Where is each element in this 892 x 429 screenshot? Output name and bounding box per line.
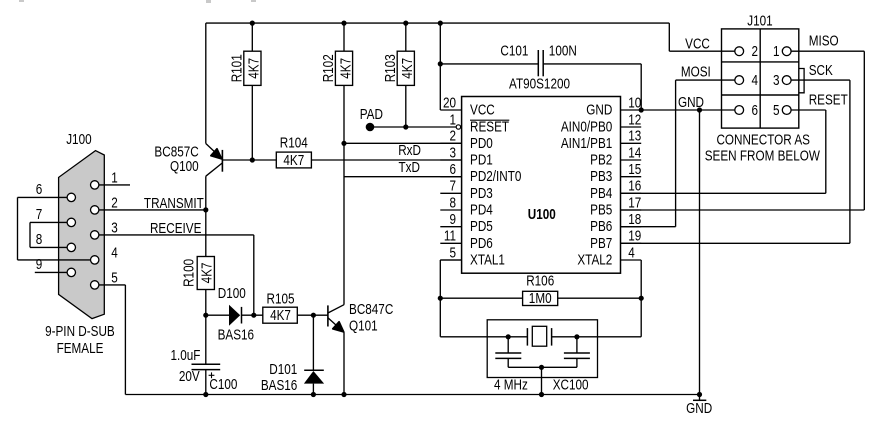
- junction C101 / GND pin 10: [639, 107, 644, 112]
- label R106: [526, 272, 554, 288]
- pin number 6 (J101): [752, 102, 759, 118]
- pin number 8: [36, 231, 43, 247]
- label J101: [747, 12, 772, 28]
- wire R102 bottom lead / Q101 collector line: [343, 85, 345, 304]
- pin number 3: [111, 219, 118, 235]
- wire crystal bus to ground rail: [541, 367, 543, 394]
- U100 pin label PB4: [590, 185, 612, 201]
- J101 pin 4: [735, 76, 744, 85]
- svg-text:1: 1: [773, 43, 780, 59]
- U100 pin label GND: [586, 101, 612, 117]
- svg-text:PD4: PD4: [470, 201, 493, 217]
- svg-text:PB5: PB5: [590, 201, 612, 217]
- svg-text:R106: R106: [526, 272, 554, 288]
- svg-text:4K7: 4K7: [198, 262, 214, 283]
- pin number 9 (U100 PD5): [449, 211, 456, 227]
- svg-text:18: 18: [628, 211, 641, 227]
- svg-text:PD3: PD3: [470, 185, 493, 201]
- wire R101 top lead: [251, 23, 253, 51]
- label Q101: [349, 317, 378, 333]
- J101 pin 1: [782, 47, 791, 56]
- label TRANSMIT: [144, 195, 204, 211]
- U100 pin label RESET: [470, 118, 509, 134]
- label J100: [66, 131, 91, 147]
- wire R100 bottom lead: [205, 290, 207, 316]
- svg-text:VCC: VCC: [685, 36, 710, 52]
- pin number 6 (U100 PD2/INT0): [449, 161, 456, 177]
- U100 left pin 11 stub: [440, 242, 461, 244]
- U100 pin label VCC: [470, 101, 495, 117]
- pin number 8 (U100 PD4): [449, 194, 456, 210]
- svg-text:BAS16: BAS16: [261, 377, 297, 393]
- value 4K7 (R105): [270, 307, 291, 323]
- J100 pin 3: [91, 231, 99, 239]
- junction RECEIVE / D100 / R105: [251, 313, 256, 318]
- svg-text:4: 4: [752, 72, 759, 88]
- J100 pin 1: [91, 181, 99, 189]
- label BC847C: [349, 301, 393, 317]
- capacitor C100 top lead: [205, 315, 207, 364]
- label Q100: [170, 158, 199, 174]
- wire D100 cathode to R105: [242, 314, 263, 316]
- wire R103 bottom lead: [405, 85, 407, 127]
- pin number 5: [111, 269, 118, 285]
- connector J100 body (9-pin D-SUB): [59, 151, 105, 319]
- junction PD0 / R102 / Q101 collector: [341, 141, 346, 146]
- svg-text:GND: GND: [586, 101, 612, 117]
- svg-text:XTAL1: XTAL1: [470, 251, 505, 267]
- svg-text:RECEIVE: RECEIVE: [150, 220, 202, 236]
- wire TRANSMIT (J100 pin 2 to Q100 collector): [95, 209, 206, 211]
- wire R102 top lead: [343, 23, 345, 51]
- wire MOSI (J101 pin 4 to U100 PB6): [621, 80, 735, 227]
- svg-text:MOSI: MOSI: [681, 63, 711, 79]
- wire TxD line (Q101 collector line to U100 PD2): [344, 176, 462, 178]
- svg-text:4K7: 4K7: [337, 58, 353, 79]
- wire GND net (U100 pin 10 to J101 pin 6): [641, 109, 735, 111]
- wire R101 bottom lead: [251, 85, 253, 160]
- svg-text:8: 8: [36, 231, 43, 247]
- U100 right pin 19 stub: [621, 242, 642, 244]
- pin number 12 (U100 AIN0/PB0): [628, 111, 641, 127]
- pin number 15 (U100 PB3): [628, 161, 641, 177]
- svg-text:7: 7: [36, 206, 43, 222]
- pin number 1 (U100 RESET): [449, 111, 456, 127]
- J100 pin 2: [91, 206, 99, 214]
- junction D101 on ground rail: [311, 392, 316, 397]
- junction VCC branch to U100: [438, 21, 443, 26]
- transistor Q100: [206, 144, 223, 177]
- junction R100 / D100 / C100: [203, 313, 208, 318]
- wire Q100 emitter to VCC rail: [205, 23, 207, 143]
- wire XTAL1 (U100 pin 5 to crystal): [440, 260, 527, 337]
- svg-text:J101: J101: [747, 12, 772, 28]
- label CONNECTOR AS: [716, 131, 810, 147]
- U100 right pin 4 stub: [621, 259, 642, 261]
- junction R106 right: [639, 296, 644, 301]
- svg-text:4K7: 4K7: [283, 152, 304, 168]
- U100 right pin 14 stub: [621, 159, 642, 161]
- U100 pin label PB7: [590, 235, 612, 251]
- svg-text:PB4: PB4: [590, 185, 612, 201]
- U100 left pin 7 stub: [440, 192, 461, 194]
- svg-text:TRANSMIT: TRANSMIT: [144, 195, 204, 211]
- wire Q100 base to R104: [222, 159, 276, 161]
- J101 pin 3: [782, 76, 791, 85]
- U100 right pin 17 stub: [621, 209, 642, 211]
- label XC100: [553, 376, 589, 392]
- U100 right pin 12 stub: [621, 126, 642, 128]
- svg-text:FEMALE: FEMALE: [57, 340, 104, 356]
- svg-text:J100: J100: [66, 131, 91, 147]
- wire GND vertical drop: [699, 110, 701, 395]
- wire J100 pin 6 to pin 4 loopback: [18, 197, 95, 260]
- label 20V: [179, 368, 200, 384]
- svg-text:13: 13: [628, 128, 641, 144]
- wire PD0 (R102/Q101 collector node to U100 PD0): [344, 142, 462, 144]
- pin number 14 (U100 PB2): [628, 144, 641, 160]
- junction crystal right / C right: [574, 334, 579, 339]
- RESET overline: [470, 119, 509, 121]
- J101 pin 6: [735, 106, 744, 115]
- svg-text:6: 6: [449, 161, 456, 177]
- label TxD: [399, 159, 420, 175]
- svg-text:PD5: PD5: [470, 218, 493, 234]
- svg-text:4 MHz: 4 MHz: [494, 376, 528, 392]
- ic U100 body: [462, 97, 621, 274]
- label BAS16 (D101): [261, 377, 297, 393]
- svg-text:PB6: PB6: [590, 218, 612, 234]
- ground symbol: [693, 395, 706, 401]
- label U100: [528, 206, 556, 222]
- cropped text descenders at top edge: [19, 0, 256, 3]
- label RxD: [398, 142, 421, 158]
- label R104: [280, 134, 308, 150]
- svg-text:100N: 100N: [549, 42, 577, 58]
- wire Q101 emitter to ground rail: [343, 332, 345, 394]
- wire R103 top lead: [405, 23, 407, 51]
- resistor R103: [397, 51, 414, 85]
- pin number 3 (U100 PD1): [449, 144, 456, 160]
- svg-text:GND: GND: [686, 400, 712, 416]
- junction C100 on ground rail: [203, 392, 208, 397]
- svg-text:4: 4: [628, 244, 635, 260]
- svg-text:XTAL2: XTAL2: [577, 251, 612, 267]
- junction R103 bottom on RESET line: [403, 124, 408, 129]
- wire VCC branch (rail to U100 pin 20): [440, 23, 461, 110]
- wire D100 anode lead: [206, 314, 229, 316]
- U100 right pin 10 stub: [621, 109, 642, 111]
- label MISO (J101): [809, 32, 839, 48]
- connector J101 body: [722, 29, 805, 128]
- resistor R102: [335, 51, 352, 85]
- pin number 3 (J101): [773, 72, 780, 88]
- label D100: [218, 285, 246, 301]
- svg-text:12: 12: [628, 111, 641, 127]
- svg-text:AT90S1200: AT90S1200: [509, 75, 570, 91]
- junction C101 on VCC branch: [438, 61, 443, 66]
- svg-text:6: 6: [752, 102, 759, 118]
- svg-text:PD6: PD6: [470, 235, 493, 251]
- label SCK (J101): [809, 62, 833, 78]
- pin number 7 (U100 PD3): [449, 178, 456, 194]
- svg-text:20V: 20V: [179, 368, 200, 384]
- svg-text:2: 2: [449, 128, 456, 144]
- diode D100: [229, 305, 242, 326]
- junction R102 top: [341, 21, 346, 26]
- label R101: [228, 54, 244, 82]
- wire RxD line (R104 to U100 PD1): [311, 159, 461, 161]
- J100 pin 7: [67, 218, 75, 226]
- label SEEN FROM BELOW: [705, 147, 821, 163]
- svg-text:PD0: PD0: [470, 135, 493, 151]
- crystal module XC100 outline: [487, 320, 597, 378]
- svg-text:3: 3: [449, 144, 456, 160]
- transistor Q101: [328, 305, 344, 333]
- J100 pin 6: [67, 193, 75, 201]
- wire R106 right lead: [558, 297, 642, 299]
- resistor R101: [244, 51, 261, 85]
- svg-text:20: 20: [443, 94, 456, 110]
- label D101: [269, 361, 297, 377]
- junction crystal ground bus: [539, 365, 544, 370]
- U100 pin label PB5: [590, 201, 612, 217]
- U100 left pin 8 stub: [440, 209, 461, 211]
- label R105: [266, 290, 294, 306]
- pin number 13 (U100 AIN1/PB1): [628, 128, 641, 144]
- label R102: [320, 54, 336, 82]
- svg-text:U100: U100: [528, 206, 556, 222]
- load capacitor right: [564, 337, 590, 368]
- value 4K7 (R104): [283, 152, 304, 168]
- U100 left pin 6 stub: [440, 176, 461, 178]
- J101 pin 5: [782, 106, 791, 115]
- svg-text:2: 2: [111, 194, 118, 210]
- label 4 MHz: [494, 376, 528, 392]
- U100 pin label PD3: [470, 185, 493, 201]
- svg-text:AIN1/PB1: AIN1/PB1: [561, 135, 612, 151]
- resistor R105: [263, 307, 298, 323]
- resistor R100: [197, 257, 214, 290]
- svg-text:5: 5: [773, 102, 780, 118]
- svg-text:R104: R104: [280, 134, 308, 150]
- label GND (J101): [678, 94, 704, 110]
- label C100: [209, 376, 237, 392]
- U100 pin label PD5: [470, 218, 493, 234]
- svg-text:6: 6: [36, 181, 43, 197]
- wire XTAL2 (U100 pin 4 to crystal): [552, 260, 642, 337]
- label AT90S1200: [509, 75, 570, 91]
- pin number 11 (U100 PD6): [444, 228, 456, 244]
- wire crystal ground bus: [508, 366, 577, 368]
- wire ground rail: [125, 394, 699, 396]
- U100 pin label AIN1/PB1: [561, 135, 612, 151]
- svg-text:MISO: MISO: [809, 32, 839, 48]
- U100 pin label PB3: [590, 168, 612, 184]
- svg-text:9: 9: [36, 256, 43, 272]
- svg-text:1: 1: [449, 111, 456, 127]
- pin number 4: [111, 244, 118, 260]
- U100 right pin 13 stub: [621, 142, 642, 144]
- pin number 6: [36, 181, 43, 197]
- pin number 10 (U100 GND): [628, 94, 641, 110]
- svg-text:R103: R103: [382, 54, 398, 82]
- value 4K7 (R102): [337, 58, 353, 79]
- svg-text:1: 1: [111, 169, 118, 185]
- svg-text:PB2: PB2: [590, 151, 612, 167]
- wire VCC top rail: [206, 22, 670, 24]
- U100 pin label PD4: [470, 201, 493, 217]
- label 1.0uF: [170, 347, 200, 363]
- svg-text:5: 5: [449, 244, 456, 260]
- svg-text:5: 5: [111, 269, 118, 285]
- svg-text:C101: C101: [500, 42, 528, 58]
- wire D101 anode to ground rail: [312, 384, 314, 395]
- pin number 4 (U100 XTAL2): [628, 244, 635, 260]
- svg-text:Q100: Q100: [170, 158, 199, 174]
- U100 left pin 9 stub: [440, 226, 461, 228]
- wire R106 left lead: [440, 297, 522, 299]
- svg-text:4K7: 4K7: [399, 58, 415, 79]
- junction R101 top: [250, 21, 255, 26]
- capacitor C100: [192, 364, 221, 378]
- svg-text:R105: R105: [266, 290, 294, 306]
- pin number 5 (U100 XTAL1): [449, 244, 456, 260]
- pin number 5 (J101): [773, 102, 780, 118]
- junction R106 left: [438, 296, 443, 301]
- wire VCC rail drop to J101 pin 2: [669, 23, 734, 51]
- label BAS16 (D100): [218, 326, 254, 342]
- svg-text:C100: C100: [209, 376, 237, 392]
- label R100: [180, 259, 196, 287]
- U100 left pin 2 stub: [440, 142, 461, 144]
- svg-text:D100: D100: [218, 285, 246, 301]
- U100 right pin 15 stub: [621, 176, 642, 178]
- svg-text:PD2/INT0: PD2/INT0: [470, 168, 521, 184]
- svg-text:BC847C: BC847C: [349, 301, 393, 317]
- svg-text:4: 4: [111, 244, 118, 260]
- wire Q101 base node down to D101: [312, 315, 314, 370]
- svg-text:1M0: 1M0: [529, 290, 552, 306]
- label MOSI (J101): [681, 63, 711, 79]
- svg-text:7: 7: [449, 178, 456, 194]
- svg-text:XC100: XC100: [553, 376, 589, 392]
- label FEMALE: [57, 340, 104, 356]
- svg-text:AIN0/PB0: AIN0/PB0: [561, 118, 612, 134]
- svg-text:2: 2: [752, 43, 759, 59]
- wire RECEIVE (J100 pin 3 to R105): [95, 235, 254, 315]
- wire J100 pin 5 to ground rail: [95, 285, 126, 395]
- label BC857C: [154, 143, 198, 159]
- U100 pin label XTAL2: [577, 251, 612, 267]
- label RECEIVE: [150, 220, 202, 236]
- svg-text:Q101: Q101: [349, 317, 378, 333]
- svg-text:R100: R100: [180, 259, 196, 287]
- pin number 1 (J101): [773, 43, 780, 59]
- pin number 16 (U100 PB4): [628, 178, 641, 194]
- U100 left pin 3 stub: [440, 159, 461, 161]
- wire J100 pin 1 stub: [95, 184, 130, 186]
- resistor R106: [523, 291, 558, 305]
- svg-text:D101: D101: [269, 361, 297, 377]
- svg-text:3: 3: [111, 219, 118, 235]
- U100 pin label XTAL1: [470, 251, 505, 267]
- wire J100 pin 9 stub: [35, 271, 72, 273]
- svg-text:TxD: TxD: [399, 159, 420, 175]
- inversion bubble on RESET pin: [456, 125, 460, 129]
- label PAD: [360, 106, 383, 122]
- U100 pin label PD6: [470, 235, 493, 251]
- svg-text:4K7: 4K7: [270, 307, 291, 323]
- junction GND drop on ground rail: [697, 392, 702, 397]
- pin number 2: [111, 194, 118, 210]
- label C101: [500, 42, 528, 58]
- node PAD: [366, 123, 375, 132]
- svg-text:RESET: RESET: [809, 91, 848, 107]
- wire J100 pin 7 to pin 8 loopback: [30, 222, 71, 247]
- svg-text:R102: R102: [320, 54, 336, 82]
- svg-text:BAS16: BAS16: [218, 326, 254, 342]
- value 100N (C101): [549, 42, 577, 58]
- pin number 9: [36, 256, 43, 272]
- svg-text:PD1: PD1: [470, 151, 493, 167]
- pin number 19 (U100 PB7): [628, 228, 641, 244]
- value 1M0 (R106): [529, 290, 552, 306]
- svg-text:15: 15: [628, 161, 641, 177]
- svg-text:4K7: 4K7: [246, 58, 262, 79]
- capacitor C101: [538, 50, 543, 76]
- svg-text:8: 8: [449, 194, 456, 210]
- label R103: [382, 54, 398, 82]
- value 4K7 (R101): [246, 58, 262, 79]
- junction crystal on ground rail: [539, 392, 544, 397]
- wire C101 right lead to GND pin: [543, 64, 641, 110]
- wire C101 left lead: [440, 63, 538, 65]
- svg-text:14: 14: [628, 144, 641, 160]
- value 4K7 (R100): [198, 262, 214, 283]
- wire SCK (J101 pin 3 to U100 PB7): [621, 80, 850, 243]
- pin number 2 (U100 PD0): [449, 128, 456, 144]
- U100 right pin 16 stub: [621, 192, 642, 194]
- pin number 18 (U100 PB6): [628, 211, 641, 227]
- svg-text:GND: GND: [678, 94, 704, 110]
- J100 pin 4: [91, 256, 99, 264]
- U100 pin label PB2: [590, 151, 612, 167]
- svg-text:VCC: VCC: [470, 101, 495, 117]
- pin number 17 (U100 PB5): [628, 194, 641, 210]
- U100 pin label PD1: [470, 151, 493, 167]
- pin number 1: [111, 169, 118, 185]
- U100 right pin 18 stub: [621, 226, 642, 228]
- svg-text:9: 9: [449, 211, 456, 227]
- svg-text:CONNECTOR AS: CONNECTOR AS: [716, 131, 810, 147]
- U100 pin label PD0: [470, 135, 493, 151]
- svg-text:9-PIN D-SUB: 9-PIN D-SUB: [45, 323, 115, 339]
- label 9-PIN D-SUB: [45, 323, 115, 339]
- svg-text:3: 3: [773, 72, 780, 88]
- junction Q101 emitter on ground rail: [341, 392, 346, 397]
- pin number 2 (J101): [752, 43, 759, 59]
- pin number 4 (J101): [752, 72, 759, 88]
- capacitor C100 bottom lead: [205, 370, 207, 395]
- svg-text:PAD: PAD: [360, 106, 383, 122]
- wire MISO (J101 pin 1 to U100 PB5): [621, 51, 865, 210]
- svg-text:RxD: RxD: [398, 142, 421, 158]
- J100 pin 5: [91, 281, 99, 289]
- svg-text:17: 17: [628, 194, 641, 210]
- diode D101: [304, 370, 324, 383]
- J101 pin 2: [735, 47, 744, 56]
